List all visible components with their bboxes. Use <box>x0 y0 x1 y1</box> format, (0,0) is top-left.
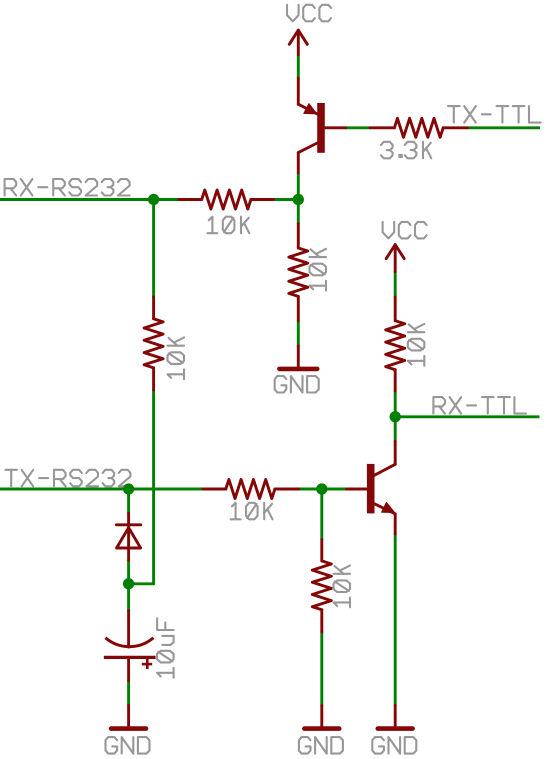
resistor R1 3.3k pins <box>370 126 467 129</box>
diode D1 cathode bar <box>116 523 140 526</box>
resistor R2 10k pins <box>179 198 274 201</box>
resistor R4 10k pins <box>297 224 300 321</box>
transistor Q2 base pin <box>347 488 367 491</box>
wire net VCC2 to R5 <box>394 272 397 297</box>
resistor R3 10k body <box>144 319 163 368</box>
ground symbol GND (under capacitor) <box>111 706 146 729</box>
transistor Q2 emitter arrow <box>382 502 395 512</box>
node junction diode cathode-capacitor node <box>123 578 134 589</box>
resistor R7 10k pins <box>320 540 323 633</box>
resistor R1 3.3k body <box>394 118 443 137</box>
transistor Q1 base bar <box>317 103 325 153</box>
resistor R3 10k pins <box>152 297 155 390</box>
diode D1 triangle <box>117 528 141 548</box>
wire net RX-RS232 from left edge to R2 <box>0 198 179 201</box>
value label 10k of R5 <box>408 324 425 366</box>
transistor Q1 collector pin <box>298 143 317 173</box>
value label 10k of R6 <box>231 503 273 520</box>
wire net R6 to Q2 base <box>299 488 347 491</box>
transistor Q1 base pin <box>325 126 346 129</box>
value label 10k of R4 <box>310 249 327 291</box>
wire net TX-RS232 junction down to diode <box>127 489 130 513</box>
wire net lower node junction to capacitor <box>127 584 130 611</box>
power symbol VCC (middle) <box>386 245 404 272</box>
wire net junction down to Q2 collector <box>394 417 397 441</box>
resistor R6 10k body <box>226 480 275 499</box>
power label VCC (middle) <box>383 222 427 239</box>
wire net TX-TTL from R1 to label <box>468 126 541 129</box>
wire net R5 down to RX-TTL junction <box>394 391 397 417</box>
resistor R5 10k pins <box>394 297 397 391</box>
wire net junction down to R4 <box>297 200 300 224</box>
ground label GND (under capacitor) <box>106 737 150 754</box>
wire net Q1 base to R1 <box>346 126 370 129</box>
resistor R2 10k body <box>202 190 251 209</box>
transistor Q1 PNP emitter pin <box>298 78 317 114</box>
resistor R4 10k body <box>289 248 308 296</box>
wire net diode to lower node junction <box>127 560 130 584</box>
node junction RX-TTL / Q2 collector <box>390 411 401 422</box>
transistor Q1 emitter arrow <box>304 104 317 114</box>
wire net Q1 collector to junction <box>297 173 300 200</box>
wire net TX-RS232 from left edge to R6 <box>0 488 203 491</box>
wire net capacitor to GND <box>127 681 130 706</box>
transistor Q2 collector pin <box>375 441 396 475</box>
ground label GND (under R4) <box>275 376 319 393</box>
wire net from R3 down crossing TX-RS232 to lower node <box>152 390 155 584</box>
ground label GND (under R7) <box>299 737 343 754</box>
net label TX-RS232 <box>5 470 130 487</box>
ground symbol GND (under Q2) <box>378 706 413 729</box>
diode D1 pin through symbol <box>127 513 130 560</box>
power symbol VCC (top) <box>289 30 307 55</box>
capacitor C1 straight plate <box>104 656 156 659</box>
net label RX-TTL <box>433 397 526 414</box>
ground symbol GND (under R4) <box>279 346 317 369</box>
ground label GND (under Q2) <box>372 737 416 754</box>
capacitor C1 curved plate <box>105 638 153 647</box>
transistor Q2 emitter pin <box>375 504 396 534</box>
value label 10k of R2 <box>208 217 250 234</box>
value label 10uF <box>157 618 174 677</box>
resistor R7 10k body <box>312 561 331 610</box>
wire net from RX-RS232 junction down to R3 <box>152 200 155 297</box>
node junction RX-RS232 / R3 <box>148 194 159 205</box>
value label 10k of R3 <box>168 337 185 379</box>
transistor Q2 base bar <box>367 464 375 514</box>
ground symbol GND (under R7) <box>304 706 339 729</box>
wire net R4 to GND symbol <box>297 321 300 346</box>
capacitor C1 top pin <box>127 611 130 647</box>
wire net R7 to GND <box>320 632 323 706</box>
wire net RX-RS232 R2 to junction <box>274 198 299 201</box>
resistor R6 10k pins <box>203 488 299 491</box>
node junction TX-RS232 / R7 <box>316 483 327 494</box>
resistor R5 10k body <box>386 321 405 370</box>
net label TX-TTL <box>448 106 541 123</box>
node junction RX-RS232 / Q1 collector / R4 <box>293 194 304 205</box>
net label RX-RS232 <box>5 179 130 196</box>
wire net Q2 emitter down to GND <box>394 534 397 706</box>
capacitor C1 bottom pin <box>127 657 130 680</box>
wire net bend to lower node junction <box>129 582 154 585</box>
node junction TX-RS232 / diode anode <box>123 483 134 494</box>
wire net VCC to Q1 emitter <box>297 55 300 78</box>
capacitor C1 plus sign <box>142 659 152 669</box>
wire net RX-TTL to label <box>395 415 539 418</box>
power label VCC (top) <box>287 5 331 22</box>
value label 3.3k <box>381 142 431 159</box>
wire net junction down to R7 <box>320 489 323 540</box>
value label 10k of R7 <box>334 566 351 608</box>
